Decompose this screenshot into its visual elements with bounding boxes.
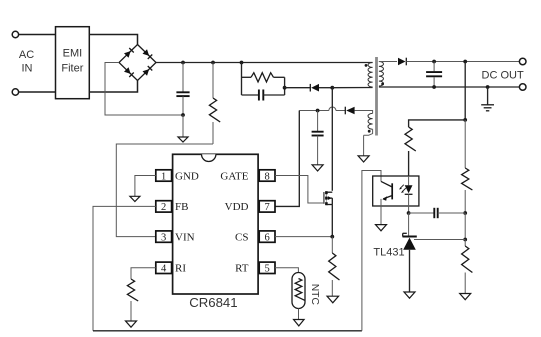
node [432,60,436,64]
svg-text:GATE: GATE [220,170,248,182]
pin 1 GND [156,170,199,183]
resistor R3 (RI set) [127,279,138,321]
transformer T1 core [375,57,378,136]
capacitor C5 (compensation) [409,208,466,218]
EMI filter block FL1 [56,27,90,99]
capacitor C4 (output) [426,62,442,88]
svg-text:IN: IN [22,63,33,75]
node (rail/clamp) [240,61,244,65]
wire [105,63,183,116]
ground [294,320,305,326]
pin 5 RT [235,262,275,275]
bridge rectifier BR1 outline [119,45,156,81]
diode D5 (clamp) [310,84,319,92]
svg-text:VDD: VDD [225,201,249,213]
node [432,85,436,89]
wire [131,268,156,279]
ground [126,321,137,327]
svg-text:AC: AC [19,49,34,61]
svg-text:7: 7 [264,202,269,213]
wire (DC+ rail) [406,61,519,63]
wire [241,63,243,96]
resistor R6 (divider upper) [462,168,473,213]
terminal DC OUT + [519,58,526,65]
wire [464,120,466,168]
ground [404,292,415,298]
op-amp U1 CR6841 body [173,154,259,310]
capacitor C3 (VDD) [312,111,324,165]
diode D6 (aux rectifier) [345,107,354,115]
optocoupler U2 body [373,176,419,206]
ground [327,296,339,303]
label DC OUT [482,69,524,81]
pin 7 VDD [225,201,275,214]
wire [275,236,332,238]
wire [135,176,156,197]
diode D3 (bridge bottom-left) [124,67,134,77]
wire [379,61,397,63]
terminal J1 (AC line) [12,31,18,37]
node (CS junction) [330,235,334,239]
wire (gate drive) [275,176,324,204]
transformer T1 aux winding [364,113,373,135]
resistor R7 (divider lower) [462,246,473,294]
node [407,211,411,215]
wire (TL431 ref) [414,239,465,241]
wire [284,77,286,95]
ground (chassis, DC out) [481,105,494,111]
wire [275,268,298,273]
pin 2 FB [156,201,189,214]
svg-text:GND: GND [175,170,199,182]
wire [285,87,311,89]
wire [464,62,466,120]
opto light arrows [399,185,406,193]
wire [464,213,466,240]
svg-text:FB: FB [175,201,188,213]
terminal DC OUT - [519,84,526,91]
ground [358,156,369,162]
svg-text:NTC: NTC [309,284,320,306]
wire [19,91,56,93]
capacitor C1 (bulk) [176,63,189,116]
wire (aux to VDD, hop over drain) [299,107,372,113]
resistor R4 (current sense) [329,237,340,297]
node [463,211,467,215]
node (clamp out) [283,86,287,90]
node (secondary polarity dot) [381,83,384,86]
transformer T1 primary winding [368,63,373,88]
svg-text:2: 2 [161,202,166,213]
svg-text:CR6841: CR6841 [189,295,237,310]
wire [89,35,137,45]
wire (FB feedback loop) [93,171,381,331]
resistor R2 (clamp) [242,73,285,82]
node [463,118,467,122]
ground [130,196,140,201]
transistor Q1 (MOSFET) [324,191,332,205]
ground [178,137,188,142]
svg-text:EMI: EMI [63,48,83,60]
ground [376,225,387,231]
transformer T1 secondary winding [379,62,384,87]
wire [408,213,410,237]
label AC IN [19,49,34,75]
diode D1 (bridge top-left) [124,48,134,58]
wire (drain) [331,88,333,191]
svg-text:6: 6 [264,232,269,243]
diode D2 (bridge top-right) [143,49,153,59]
svg-text:RT: RT [235,263,249,275]
wire (VDD to pin 7) [275,111,299,207]
svg-text:1: 1 [161,171,166,182]
svg-text:5: 5 [264,264,269,275]
ground [312,165,323,171]
wire [487,87,489,105]
terminal J2 (AC neutral) [12,89,18,95]
node (primary polarity dot) [365,64,368,67]
svg-text:4: 4 [161,264,167,275]
wire (DC- rail) [379,86,520,88]
pin 3 VIN [156,231,195,244]
svg-text:TL431: TL431 [373,247,404,259]
resistor R5 (opto feed) [405,127,416,176]
diode D4 (bridge bottom-right) [143,66,153,76]
resistor R1 (startup) [209,63,220,145]
svg-text:CS: CS [235,231,248,243]
ground [460,294,471,300]
svg-text:DC OUT: DC OUT [482,69,524,81]
wire (opto feed tap) [409,120,466,127]
shunt regulator U3 TL431 [373,233,416,292]
pin 4 RI [156,262,187,275]
node [463,60,467,64]
diode D7 (output rectifier) [398,58,406,66]
wire [319,87,332,89]
wire [298,309,300,320]
wire (source) [331,205,333,237]
wire [182,115,184,137]
wire [89,81,137,93]
node (VDD cap tap) [316,109,320,113]
node (aux polarity dot) [368,130,371,133]
node (rail/startup R) [211,61,215,65]
wire [19,34,56,36]
thermistor RT1 (NTC) [292,273,320,309]
svg-text:VIN: VIN [175,231,195,243]
svg-text:3: 3 [161,232,166,243]
svg-text:8: 8 [264,171,269,182]
pin 8 GATE [220,170,275,183]
LED (opto emitter diode) [405,176,413,213]
wire (to VIN) [116,144,213,237]
transistor (opto phototransistor) [381,181,392,224]
wire (aux return) [363,135,365,156]
wire (+DC rail) [156,62,373,64]
node [463,238,467,242]
capacitor C2 (clamp) [242,90,285,101]
svg-text:RI: RI [175,263,186,275]
wire (primary bottom lead) [332,87,372,89]
wire [464,240,466,247]
node (C1/neg rail) [181,113,185,117]
pin 6 CS [235,231,275,244]
node (drain/primary) [330,86,334,90]
node [486,85,490,89]
svg-text:Fiter: Fiter [61,63,83,75]
node (rail/bulk cap) [181,61,185,65]
